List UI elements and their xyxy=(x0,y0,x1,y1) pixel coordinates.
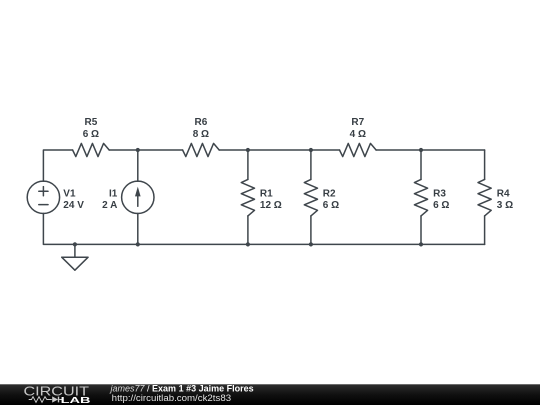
wire R1 top lead xyxy=(247,150,249,179)
wire R3 bottom lead xyxy=(420,216,422,245)
CircuitLab logo diode xyxy=(52,396,62,402)
junction dot bottom of I1 xyxy=(136,242,140,246)
svg-text:james77 / Exam 1 #3 Jaime Flor: james77 / Exam 1 #3 Jaime Flores xyxy=(110,384,254,394)
svg-text:24 V: 24 V xyxy=(63,200,84,211)
resistor R4 xyxy=(478,179,491,216)
junction dot node C top of R2 xyxy=(309,148,313,152)
svg-text:6 Ω: 6 Ω xyxy=(433,200,449,211)
wire bottom rail ground node to I1 xyxy=(75,243,138,245)
wire R2 bottom lead xyxy=(310,216,312,245)
svg-text:R6: R6 xyxy=(195,117,208,128)
wire R3 top lead xyxy=(420,150,422,179)
label R3 name xyxy=(433,188,446,199)
svg-text:http://circuitlab.com/ck2ts83: http://circuitlab.com/ck2ts83 xyxy=(112,393,231,403)
svg-text:4 Ω: 4 Ω xyxy=(350,129,366,140)
footer title text james77 / Exam 1 #3 Jaime Flores xyxy=(110,384,254,394)
wire node B to node C xyxy=(248,149,311,151)
label R2 name xyxy=(323,188,336,199)
label R4 name xyxy=(497,188,510,199)
wire R4 top lead xyxy=(484,150,486,179)
label R6 name xyxy=(195,117,208,128)
svg-text:2 A: 2 A xyxy=(102,200,117,211)
CircuitLab logo wordmark LAB xyxy=(61,395,91,405)
label V1 name xyxy=(63,188,76,199)
resistor R6 xyxy=(183,143,220,156)
label V1 value 24 V xyxy=(63,200,84,211)
svg-text:R7: R7 xyxy=(351,117,364,128)
wire I1 top lead xyxy=(137,150,139,181)
wire node D to R4 corner xyxy=(421,149,485,151)
svg-text:V1: V1 xyxy=(63,188,76,199)
current source I1 xyxy=(122,181,154,213)
label R3 value 6 ohm xyxy=(433,200,449,211)
svg-text:6 Ω: 6 Ω xyxy=(323,200,339,211)
wire node C to R7 xyxy=(311,149,340,151)
wire R5 to node A xyxy=(109,149,138,151)
ground xyxy=(62,244,88,270)
resistor R5 xyxy=(73,143,110,156)
wire R2 top lead xyxy=(310,150,312,179)
wire bottom rail I1 to R1 xyxy=(138,243,248,245)
wire top rail V1 corner to R5 xyxy=(43,150,72,181)
junction dot bottom of R1 xyxy=(246,242,250,246)
wire bottom rail V1 to ground node xyxy=(43,213,75,244)
svg-text:R1: R1 xyxy=(260,188,273,199)
label R5 name xyxy=(85,117,98,128)
svg-text:6 Ω: 6 Ω xyxy=(83,129,99,140)
svg-text:3 Ω: 3 Ω xyxy=(497,200,513,211)
junction dot bottom of R2 xyxy=(309,242,313,246)
junction dot ground node xyxy=(73,242,77,246)
label R5 value 6 ohm xyxy=(83,129,99,140)
wire R6 to node B xyxy=(219,149,248,151)
svg-text:12 Ω: 12 Ω xyxy=(260,200,282,211)
junction dot node A top of I1 xyxy=(136,148,140,152)
wire R4 bottom lead xyxy=(484,216,486,245)
wire bottom rail R2 to R3 xyxy=(311,243,421,245)
label R1 name xyxy=(260,188,273,199)
label R2 value 6 ohm xyxy=(323,200,339,211)
resistor R1 xyxy=(241,179,254,216)
label R1 value 12 ohm xyxy=(260,200,282,211)
label R6 value 8 ohm xyxy=(193,129,209,140)
wire R7 to node D xyxy=(376,149,421,151)
CircuitLab logo resistor squiggle xyxy=(29,397,52,403)
svg-text:8 Ω: 8 Ω xyxy=(193,129,209,140)
label R7 name xyxy=(351,117,364,128)
label I1 value 2 A xyxy=(102,200,117,211)
CircuitLab logo wordmark CIRCUIT xyxy=(24,385,90,399)
wire bottom rail R3 to R4 xyxy=(421,243,485,245)
wire R1 bottom lead xyxy=(247,216,249,245)
junction dot node D top of R3 xyxy=(419,148,423,152)
svg-text:LAB: LAB xyxy=(61,395,91,405)
junction dot node B top of R1 xyxy=(246,148,250,152)
svg-text:R3: R3 xyxy=(433,188,446,199)
svg-text:R5: R5 xyxy=(85,117,98,128)
svg-text:R4: R4 xyxy=(497,188,510,199)
footer bar xyxy=(0,384,540,405)
label R4 value 3 ohm xyxy=(497,200,513,211)
svg-text:I1: I1 xyxy=(109,188,118,199)
resistor R3 xyxy=(414,179,427,216)
voltage source V1 xyxy=(27,181,59,213)
resistor R2 xyxy=(304,179,317,216)
junction dot bottom of R3 xyxy=(419,242,423,246)
wire I1 bottom lead xyxy=(137,213,139,244)
label R7 value 4 ohm xyxy=(350,129,366,140)
resistor R7 xyxy=(340,143,377,156)
footer url text xyxy=(112,393,231,403)
label I1 name xyxy=(109,188,118,199)
svg-text:R2: R2 xyxy=(323,188,336,199)
wire bottom rail R1 to R2 xyxy=(248,243,311,245)
wire node A to R6 xyxy=(138,149,183,151)
